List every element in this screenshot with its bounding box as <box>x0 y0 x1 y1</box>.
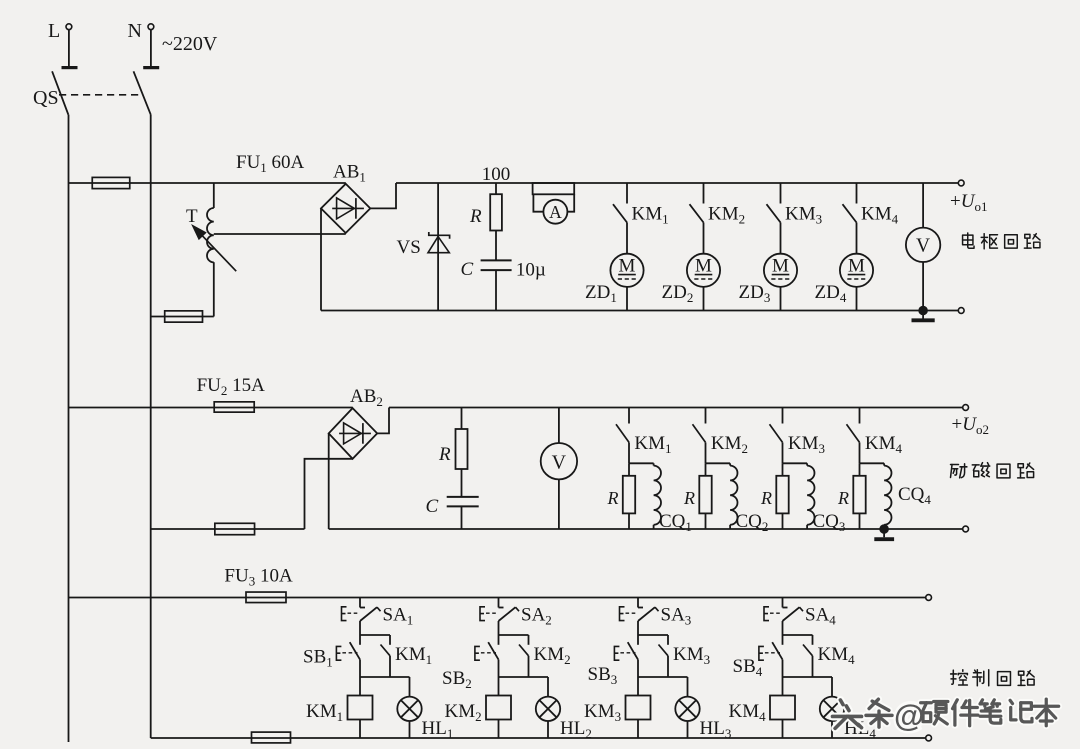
ground row2 <box>883 529 885 537</box>
transformer T adjust arrow <box>198 231 237 272</box>
wire node join row3 branch 4 <box>783 676 833 678</box>
svg-text:CQ1: CQ1 <box>659 511 692 534</box>
actuator E SA2 <box>480 607 485 621</box>
junction dot row2 <box>880 525 889 534</box>
switch SA4 <box>782 598 784 608</box>
wire R snubber branch top <box>495 183 497 194</box>
wire coil KM1 to rail <box>359 720 361 739</box>
field coil CQ2 <box>729 463 731 465</box>
wire L line vertical <box>68 115 70 742</box>
wire SB1 down <box>359 660 361 677</box>
wire V row2 to rail <box>558 479 560 529</box>
transformer T winding <box>207 208 214 262</box>
wire lamp lead branch 3 <box>687 677 689 697</box>
label licihuilu field circuit <box>951 464 967 478</box>
svg-text:ZD1: ZD1 <box>585 282 617 305</box>
svg-text:CQ4: CQ4 <box>898 484 931 507</box>
contactor aux contact KM2 row3 <box>528 635 530 645</box>
wire KM4 to motor <box>856 223 858 254</box>
pushbutton SB3 <box>637 635 639 645</box>
svg-text:SA2: SA2 <box>521 605 552 628</box>
wire row1 bottom rail <box>321 310 961 312</box>
fuse row3 return <box>252 732 291 743</box>
voltmeter V row2 branch <box>558 408 560 444</box>
contactor contact KM4 row2 <box>859 408 861 424</box>
resistor R row1 <box>490 194 502 230</box>
wire node split row2 branch 1 <box>629 462 654 464</box>
voltmeter V row1 branch <box>922 183 924 228</box>
svg-text:FU2 15A: FU2 15A <box>197 375 266 398</box>
wire AB1 minus drop <box>320 208 322 310</box>
field coil CQ4 <box>883 463 885 465</box>
svg-text:R: R <box>837 488 849 508</box>
fixed contact bar N <box>143 66 159 69</box>
wire motor ZD4 to rail <box>856 287 858 311</box>
wire lamp HL2 to rail <box>547 721 549 738</box>
svg-text:R: R <box>438 444 451 465</box>
svg-text:ZD2: ZD2 <box>662 282 694 305</box>
terminal L <box>66 24 72 30</box>
svg-text:KM4: KM4 <box>861 204 899 227</box>
svg-text:R: R <box>683 488 695 508</box>
wire T primary drop <box>213 183 215 208</box>
svg-text:R: R <box>760 488 772 508</box>
svg-text:+Uo2: +Uo2 <box>952 414 989 437</box>
svg-text:AB1: AB1 <box>333 162 366 185</box>
wire node split row3 branch 1 <box>360 634 390 636</box>
wire node split row3 branch 3 <box>638 634 668 636</box>
label dianshu-huilu armature circuit <box>963 233 974 248</box>
wire SB4 down <box>782 660 784 677</box>
pushbutton SB1 <box>359 635 361 645</box>
wire row2 top bus left segment <box>69 407 353 409</box>
svg-text:KM3: KM3 <box>785 204 822 227</box>
fixed contact bar L <box>62 66 78 69</box>
svg-text:SA4: SA4 <box>805 605 836 628</box>
wire T lower lead <box>213 262 215 316</box>
wire R to C <box>495 231 497 261</box>
svg-text:ZD4: ZD4 <box>815 282 847 305</box>
wire AB1 plus out <box>370 183 396 208</box>
wire SA2 to node <box>498 621 500 635</box>
wire AB2 minus drop <box>328 433 330 529</box>
wire motor ZD1 to rail <box>626 287 628 311</box>
actuator E SB3 <box>614 646 619 660</box>
wire coil lead branch 4 <box>782 677 784 696</box>
switch QS pole L blade <box>52 71 68 115</box>
terminal row1 bottom <box>958 308 964 314</box>
voltmeter V row2 <box>541 443 577 479</box>
junction dot row1 <box>919 306 928 315</box>
wire row3 top bus <box>69 597 926 599</box>
wire to R branch 4 <box>859 463 861 476</box>
rectifier AB1 diamond <box>321 184 370 233</box>
motor ZD3 <box>764 254 797 287</box>
contactor coil KM1 <box>348 696 373 720</box>
wire KM1 to motor <box>626 223 628 254</box>
svg-text:KM4: KM4 <box>818 644 856 667</box>
actuator E SA3 <box>620 607 625 621</box>
wire KM1 row2 to node <box>628 442 630 463</box>
switch SA1 <box>359 598 361 608</box>
svg-text:CQ3: CQ3 <box>813 511 846 534</box>
lamp HL3 <box>675 697 699 721</box>
label kongzhihuilu control circuit <box>951 670 968 685</box>
svg-text:R: R <box>469 206 482 227</box>
wire N line vertical <box>150 115 152 738</box>
svg-text:10µ: 10µ <box>516 260 546 281</box>
fuse FU2 <box>214 402 254 412</box>
wire node split row3 branch 4 <box>783 634 813 636</box>
svg-text:SB2: SB2 <box>442 668 472 691</box>
rectifier AB2 diode <box>339 432 371 434</box>
svg-text:SB1: SB1 <box>303 647 333 670</box>
zener diode VS <box>429 232 450 239</box>
wire T tap to AB1 <box>214 233 346 235</box>
lamp HL4 <box>820 697 844 721</box>
wire SB3 down <box>637 660 639 677</box>
terminal +Uo1 top <box>958 180 964 186</box>
svg-text:L: L <box>48 20 60 42</box>
contactor aux contact KM3 row3 <box>667 635 669 645</box>
wire C to rail <box>495 270 497 310</box>
resistor R row2 series <box>456 429 468 469</box>
wire RC branch row2 <box>461 408 463 430</box>
resistor R parallel branch 3 <box>776 476 788 514</box>
actuator E SB2 <box>475 646 480 660</box>
wire lamp HL3 to rail <box>687 721 689 738</box>
svg-text:KM3: KM3 <box>788 433 825 456</box>
fuse FU1 <box>92 177 130 188</box>
ammeter A <box>543 200 567 224</box>
actuator E SB4 <box>759 646 764 660</box>
contactor coil KM2 <box>486 696 511 720</box>
wire row2 top bus right segment <box>389 407 966 409</box>
svg-text:R: R <box>607 488 619 508</box>
wire coil KM2 to rail <box>498 720 500 739</box>
svg-text:+Uo1: +Uo1 <box>950 191 987 214</box>
svg-text:SA1: SA1 <box>383 605 414 628</box>
svg-text:KM2: KM2 <box>708 204 745 227</box>
svg-text:SA3: SA3 <box>661 605 692 628</box>
svg-text:CQ2: CQ2 <box>736 511 769 534</box>
wire row1 top bus right segment <box>396 182 961 184</box>
wire KM3 row2 to node <box>782 442 784 463</box>
fuse row2 return <box>215 523 255 534</box>
wire node split row2 branch 4 <box>860 462 885 464</box>
resistor R parallel branch 4 <box>853 476 865 514</box>
contactor contact KM3 row2 <box>782 408 784 424</box>
capacitor C row2 <box>447 496 479 498</box>
terminal +Uo2 top <box>963 405 969 411</box>
contactor contact KM1 row2 <box>628 408 630 424</box>
terminal row3 bottom <box>926 735 932 741</box>
wire R bottom branch 3 <box>782 513 784 529</box>
wire node split row2 branch 3 <box>783 462 808 464</box>
contactor coil KM3 <box>626 696 651 720</box>
wire node split row2 branch 2 <box>706 462 731 464</box>
resistor R parallel branch 1 <box>623 476 635 514</box>
motor ZD1 <box>610 254 643 287</box>
contactor contact KM4 row1 <box>856 183 858 204</box>
switch SA2 <box>498 598 500 608</box>
svg-text:M: M <box>695 256 712 277</box>
actuator E SA1 <box>342 607 347 621</box>
wire SA4 to node <box>782 621 784 635</box>
svg-text:KM1: KM1 <box>634 433 671 456</box>
svg-text:KM1: KM1 <box>306 701 343 724</box>
wire R bottom branch 2 <box>705 513 707 529</box>
voltmeter V row1 <box>906 228 940 262</box>
wire coil KM3 to rail <box>637 720 639 739</box>
wire row1 top bus left segment <box>69 182 346 184</box>
svg-text:V: V <box>552 451 567 473</box>
rectifier AB2 diamond <box>329 408 378 459</box>
actuator E SA4 <box>764 607 769 621</box>
contactor aux contact KM1 row3 <box>389 635 391 645</box>
wire SA3 to node <box>637 621 639 635</box>
wire coil lead branch 2 <box>498 677 500 696</box>
wire lamp HL4 to rail <box>831 721 833 738</box>
switch QS linkage dashed <box>59 94 140 96</box>
wire KM2 to motor <box>703 223 705 254</box>
wire node join row3 branch 1 <box>360 676 410 678</box>
wire coil KM4 to rail <box>782 720 784 739</box>
svg-text:~220V: ~220V <box>162 33 218 55</box>
svg-text:T: T <box>186 206 198 227</box>
ammeter shunt box <box>533 183 575 194</box>
resistor R parallel branch 2 <box>699 476 711 514</box>
field coil CQ3 <box>806 463 808 465</box>
wire V row1 to rail <box>922 262 924 311</box>
fuse row1 return <box>165 311 203 322</box>
wire to R branch 3 <box>782 463 784 476</box>
actuator E SB1 <box>336 646 341 660</box>
fuse FU3 <box>246 592 286 603</box>
wire motor ZD2 to rail <box>703 287 705 311</box>
lamp HL1 <box>397 697 421 721</box>
contactor contact KM2 row1 <box>703 183 705 204</box>
wire lamp lead branch 2 <box>547 677 549 697</box>
wire lamp lead branch 1 <box>409 677 411 697</box>
wire R bottom branch 1 <box>628 513 630 529</box>
svg-text:N: N <box>128 20 142 42</box>
svg-text:KM2: KM2 <box>534 644 571 667</box>
wire SA1 to node <box>359 621 361 635</box>
terminal row2 bottom <box>963 526 969 532</box>
svg-text:KM1: KM1 <box>395 644 432 667</box>
lamp HL2 <box>536 697 560 721</box>
wire row2 bottom rail <box>329 528 966 530</box>
wire SB2 down <box>498 660 500 677</box>
wire coil lead branch 1 <box>359 677 361 696</box>
svg-text:KM3: KM3 <box>673 644 710 667</box>
svg-text:M: M <box>848 256 865 277</box>
svg-text:HL3: HL3 <box>700 718 732 741</box>
svg-text:M: M <box>772 256 789 277</box>
wire row3 bottom rail <box>151 737 926 739</box>
zener diode VS branch wire <box>437 183 439 311</box>
svg-text:KM2: KM2 <box>711 433 748 456</box>
svg-text:A: A <box>549 202 562 222</box>
motor ZD4 <box>840 254 873 287</box>
svg-text:@: @ <box>894 698 924 733</box>
switch SA3 <box>637 598 639 608</box>
wire N to T return <box>151 316 214 318</box>
terminal N <box>148 24 154 30</box>
contactor aux contact KM4 row3 <box>812 635 814 645</box>
svg-text:KM3: KM3 <box>584 701 621 724</box>
wire KM3 to motor <box>780 223 782 254</box>
switch QS pole N blade <box>134 71 151 115</box>
contactor coil KM4 <box>770 696 795 720</box>
svg-text:FU1 60A: FU1 60A <box>236 152 305 175</box>
wire return riser to AB2 <box>305 459 353 529</box>
contactor contact KM2 row2 <box>705 408 707 424</box>
watermark toutiao at yingjianbijiben <box>832 700 861 728</box>
svg-text:C: C <box>461 259 474 280</box>
wire R bottom branch 4 <box>859 513 861 529</box>
terminal row3 top <box>926 595 932 601</box>
wire node join row3 branch 2 <box>499 676 549 678</box>
svg-text:KM2: KM2 <box>445 701 482 724</box>
wire motor ZD3 to rail <box>780 287 782 311</box>
wire to R branch 2 <box>705 463 707 476</box>
svg-text:KM4: KM4 <box>729 701 767 724</box>
wire node join row3 branch 3 <box>638 676 688 678</box>
wire KM4 row2 to node <box>859 442 861 463</box>
svg-text:SB3: SB3 <box>588 664 618 687</box>
svg-text:100: 100 <box>482 164 511 185</box>
contactor contact KM3 row1 <box>780 183 782 204</box>
pushbutton SB2 <box>498 635 500 645</box>
svg-text:V: V <box>916 236 930 257</box>
ground row1 <box>922 311 924 319</box>
wire node split row3 branch 2 <box>499 634 529 636</box>
wire lamp HL1 to rail <box>409 721 411 738</box>
svg-text:QS: QS <box>33 87 59 109</box>
capacitor C row1 <box>481 259 512 261</box>
ammeter A loop wires <box>533 194 543 211</box>
svg-text:M: M <box>619 256 636 277</box>
contactor contact KM1 row1 <box>626 183 628 204</box>
svg-text:ZD3: ZD3 <box>739 282 771 305</box>
pushbutton SB4 <box>782 635 784 645</box>
wire coil lead branch 3 <box>637 677 639 696</box>
svg-text:KM4: KM4 <box>865 433 903 456</box>
wire AB2 plus out <box>377 408 389 434</box>
wire KM2 row2 to node <box>705 442 707 463</box>
svg-text:C: C <box>426 496 439 517</box>
svg-text:AB2: AB2 <box>350 386 383 409</box>
svg-text:VS: VS <box>397 237 421 258</box>
field coil CQ1 <box>653 463 655 465</box>
svg-text:FU3 10A: FU3 10A <box>224 566 293 589</box>
wire row2 return from N <box>151 528 305 530</box>
svg-text:KM1: KM1 <box>632 204 669 227</box>
motor ZD2 <box>687 254 720 287</box>
rectifier AB1 diode <box>332 207 364 209</box>
wire C row2 to rail <box>461 506 463 529</box>
wire to R branch 1 <box>628 463 630 476</box>
wire lamp lead branch 4 <box>831 677 833 697</box>
